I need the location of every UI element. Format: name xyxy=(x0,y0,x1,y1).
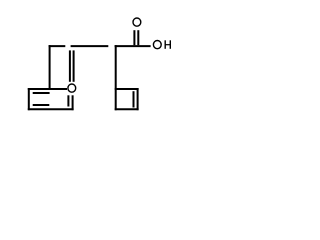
carboxyl C=O double bond (two vertical lines) xyxy=(134,30,138,45)
double bond C=O to ring oxygen (two vertical lines) xyxy=(70,50,74,81)
left ring: right edge inner double-bond line xyxy=(67,95,69,106)
square ring: right edge inner double-bond line xyxy=(133,91,135,107)
atom label O (carboxyl oxygen) xyxy=(133,18,141,26)
left ring: bottom edge xyxy=(28,108,74,110)
wire: left vertical bond from top chain down to ring xyxy=(49,45,51,90)
square ring: right edge outer line xyxy=(137,88,139,110)
wire: right vertical bond from top chain down (also square left edge) xyxy=(115,45,117,110)
atom label O of hydroxyl OH xyxy=(153,41,161,49)
wire: top chain bond segment 1 (left vertex to gap) xyxy=(49,45,66,47)
atom label O (ring oxygen) xyxy=(68,84,76,92)
left ring: right edge outer line (below O) xyxy=(72,95,74,110)
left ring: inner top double-bond line xyxy=(33,92,50,94)
wire: top chain bond segment 3 (through carboxyl carbon to OH) xyxy=(115,45,151,47)
left ring: left edge xyxy=(28,88,30,110)
atom label H of hydroxyl OH xyxy=(165,40,170,49)
square ring: bottom edge xyxy=(115,108,139,110)
square ring: top edge xyxy=(115,88,139,90)
left ring: inner bottom double-bond line xyxy=(33,104,50,106)
wire: top chain bond segment 2 (middle) xyxy=(71,45,109,47)
left ring: top edge xyxy=(28,88,67,90)
